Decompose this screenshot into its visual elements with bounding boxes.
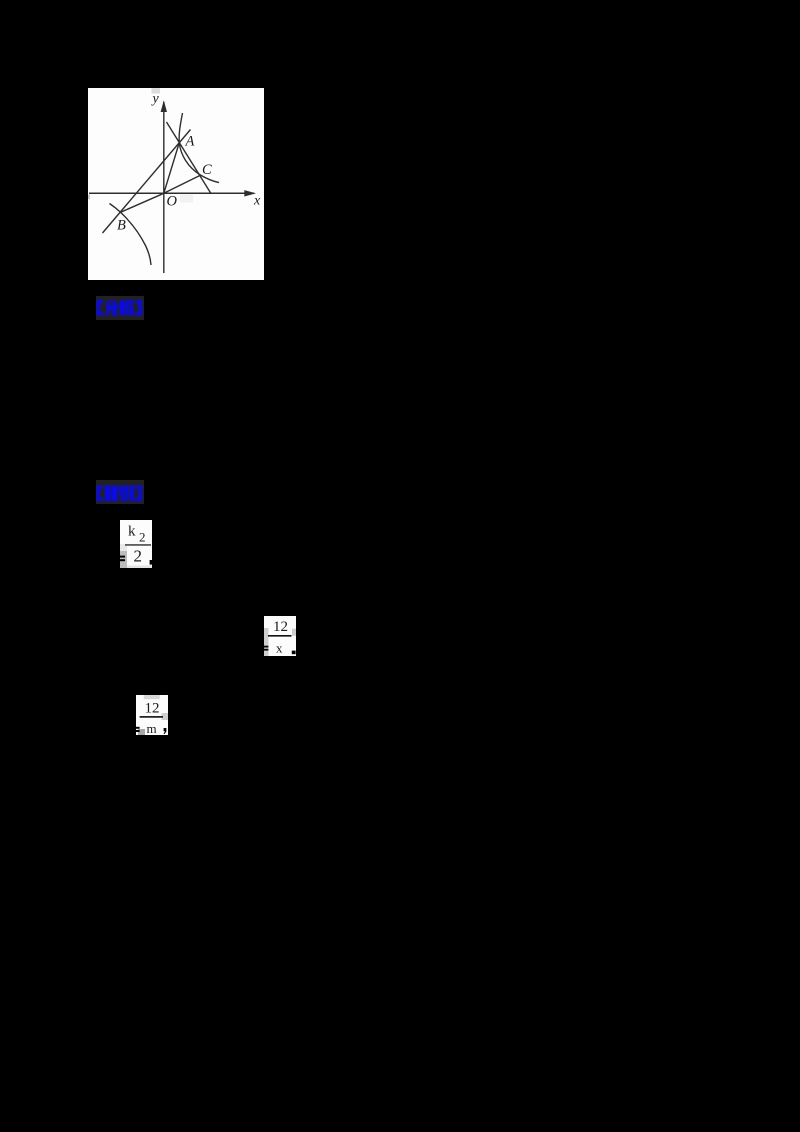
formula image: = k2 / 2 — [120, 520, 152, 568]
svg-text:2: 2 — [134, 547, 143, 566]
svg-text:m: m — [147, 721, 157, 735]
svg-text:x: x — [276, 640, 283, 655]
svg-text:B: B — [117, 218, 126, 234]
svg-text:2: 2 — [139, 530, 146, 545]
line through B and A — [103, 130, 191, 234]
svg-text:y: y — [151, 92, 160, 107]
formula image: = 12 / m — [136, 695, 168, 735]
segment B to O — [121, 193, 164, 212]
formula image: = 12 / x — [264, 616, 296, 656]
svg-text:C: C — [202, 162, 212, 178]
segment O to C — [164, 175, 201, 193]
figure: coordinate-plane diagram with hyperbola, points A B C, origin O — [88, 88, 264, 280]
svg-text:O: O — [167, 194, 178, 210]
segment O to A — [164, 143, 180, 194]
blue heading 2 (answer) on dark box — [96, 480, 144, 504]
svg-text:x: x — [253, 194, 261, 209]
faint gray strip below x-axis near C — [180, 195, 193, 203]
x-axis arrowhead — [244, 190, 256, 196]
svg-text:k: k — [128, 524, 136, 540]
blue heading 1 (analysis) on dark box — [96, 296, 144, 320]
svg-text:12: 12 — [273, 619, 288, 635]
gray nub left below x-axis — [88, 195, 90, 200]
gray tick artifact top — [152, 88, 161, 94]
y-axis arrowhead — [161, 100, 167, 112]
y-axis — [163, 102, 165, 273]
x-axis — [89, 192, 254, 194]
svg-text:A: A — [185, 134, 195, 150]
svg-text:12: 12 — [145, 701, 160, 717]
hyperbola branch first quadrant through A and C — [179, 113, 219, 183]
line through A and C to x-axis — [167, 122, 211, 193]
hyperbola branch third quadrant through B — [110, 204, 152, 266]
